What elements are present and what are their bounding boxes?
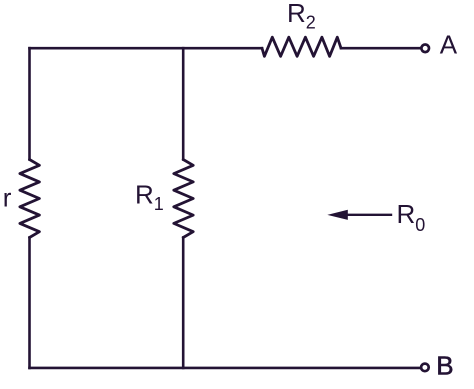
svg-text:R0: R0 (397, 199, 426, 235)
arrow R0 head (327, 210, 348, 220)
terminal B (421, 364, 429, 372)
resistor R2 (262, 37, 341, 56)
wire top horizontal left segment (30, 47, 263, 50)
wire middle vertical upper (182, 48, 185, 159)
resistor R1 (174, 160, 193, 238)
svg-text:R2: R2 (287, 0, 316, 33)
terminal A (421, 45, 429, 53)
svg-text:B: B (436, 351, 453, 381)
arrow R0 shaft (348, 214, 393, 216)
svg-text:r: r (3, 183, 12, 213)
wire middle vertical lower (182, 238, 185, 368)
wire left vertical upper (28, 48, 31, 159)
svg-text:A: A (440, 30, 458, 60)
svg-text:R1: R1 (135, 180, 164, 215)
wire top horizontal right segment (R2 to terminal A) (341, 47, 420, 50)
resistor r (20, 160, 40, 238)
wire left vertical lower (28, 238, 31, 368)
wire bottom horizontal (30, 367, 420, 370)
